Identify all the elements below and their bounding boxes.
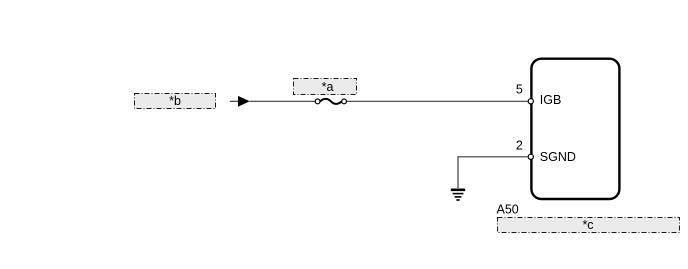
svg-text:IGB: IGB xyxy=(540,93,562,107)
wire pin 2 to ground xyxy=(458,157,528,188)
wire arrow to fuse xyxy=(250,100,316,102)
svg-text:SGND: SGND xyxy=(540,150,576,164)
ground xyxy=(451,190,465,200)
svg-text:*a: *a xyxy=(322,80,334,94)
svg-text:*b: *b xyxy=(169,94,181,108)
pin 5 terminal xyxy=(528,99,533,104)
node *c label box (component name) xyxy=(498,218,680,233)
node *a label box (fuse name) xyxy=(294,79,357,95)
arrow (signal flow) xyxy=(230,96,250,107)
wire fuse to pin 5 xyxy=(347,100,529,102)
svg-text:A50: A50 xyxy=(497,203,519,217)
pin 2 terminal xyxy=(528,154,533,159)
svg-text:*c: *c xyxy=(582,218,593,232)
svg-text:5: 5 xyxy=(516,83,523,97)
ECU A50 body xyxy=(531,59,619,199)
fuse element xyxy=(315,99,346,104)
svg-text:2: 2 xyxy=(516,139,523,153)
node *b label box xyxy=(135,94,216,109)
